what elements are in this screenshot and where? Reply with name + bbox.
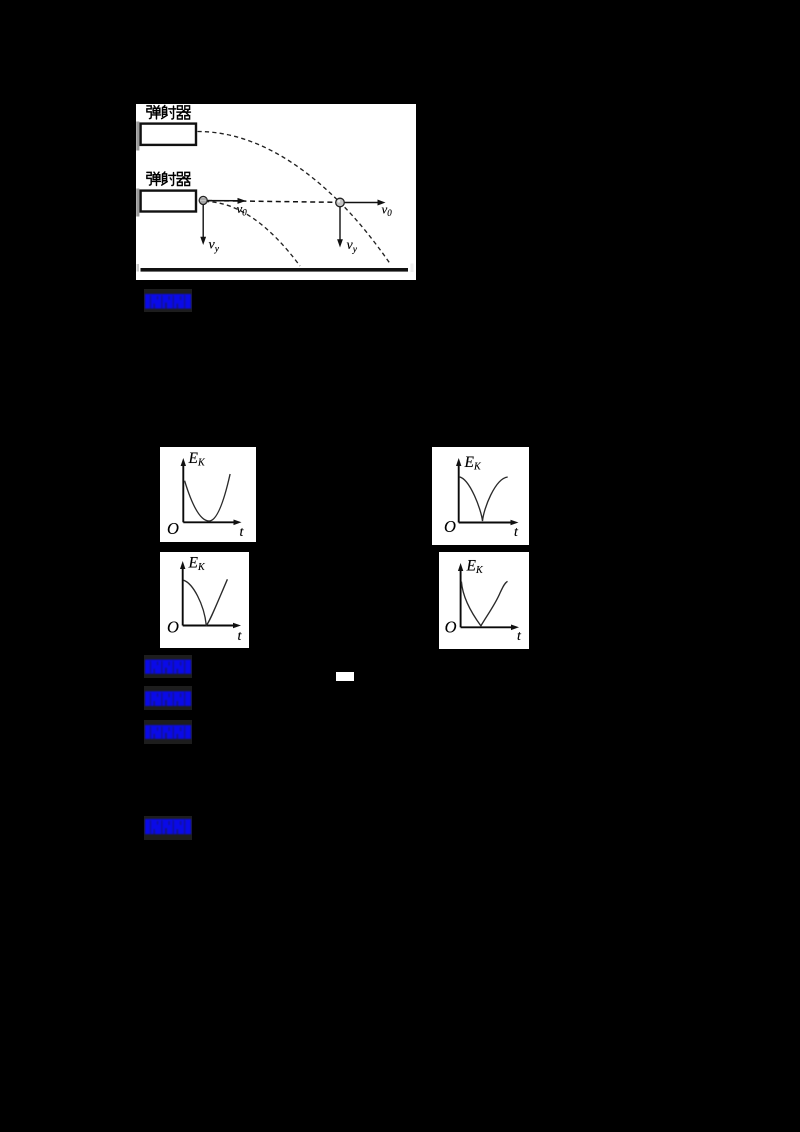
- launcher 1 body: [141, 124, 196, 145]
- ground line: [141, 268, 409, 272]
- ball 1: [199, 196, 207, 204]
- vy arrow 1: [202, 205, 204, 239]
- figure: projectile launch diagram: [136, 104, 416, 280]
- svg-text:O: O: [167, 618, 179, 637]
- trajectory 2 (dashed): [205, 202, 300, 267]
- launcher label 1 (弹射器): [147, 105, 191, 119]
- svg-text:O: O: [444, 517, 456, 536]
- tag 3: [144, 686, 192, 710]
- vy arrow 2: [339, 207, 341, 242]
- solid v0 arrow at ball 1: [206, 200, 239, 202]
- tag 1 (blue highlighted label): [144, 289, 192, 312]
- solid v0 arrow at ball 2: [345, 202, 379, 204]
- trajectory 1 (dashed): [198, 132, 392, 266]
- svg-text:O: O: [167, 519, 179, 538]
- graph D: [439, 552, 529, 649]
- graph B: [432, 447, 529, 545]
- ball 2: [336, 198, 345, 207]
- white redaction rectangle: [336, 672, 354, 682]
- launcher 2 shadow: [136, 189, 139, 217]
- tag 4: [144, 720, 192, 745]
- graph C: [160, 552, 249, 648]
- launcher 2 body: [141, 191, 196, 212]
- dashed horizontal line between balls: [207, 201, 336, 203]
- svg-text:O: O: [445, 618, 457, 637]
- graph A: [160, 447, 256, 542]
- tag 5: [144, 816, 192, 840]
- launcher 1 shadow: [136, 122, 139, 151]
- tag 2: [144, 655, 192, 678]
- launcher label 2 (弹射器): [147, 172, 191, 186]
